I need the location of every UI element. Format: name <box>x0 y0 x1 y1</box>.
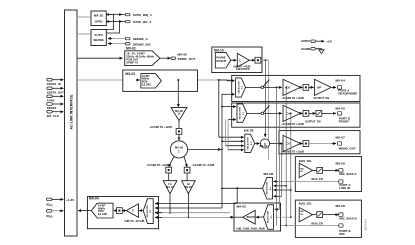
svg-text:OUTPUT_EN: OUTPUT_EN <box>305 121 321 124</box>
svg-text:BIAS_SEL: BIAS_SEL <box>299 159 312 163</box>
wire center taps vertical v5 <box>218 80 220 137</box>
pin ID0 <box>47 210 64 219</box>
svg-text:AC-LINK INTERFACE: AC-LINK INTERFACE <box>69 94 73 130</box>
wire HP amp to pin <box>331 86 336 88</box>
svg-text:SDATA_IN: SDATA_IN <box>47 82 61 86</box>
wire switch to amp row1 <box>264 86 282 88</box>
enable switch row2 <box>305 111 322 124</box>
DAC main bus wire <box>77 79 233 81</box>
wire record in2 <box>155 207 222 209</box>
svg-text:MX-09: MX-09 <box>336 162 346 166</box>
node chain mono <box>221 140 223 142</box>
bias switch row4 <box>312 168 323 182</box>
wire summer to right mute <box>184 156 187 167</box>
row3 mono box <box>279 131 360 154</box>
svg-text:SDATA_OUT: SDATA_OUT <box>47 91 64 95</box>
bias amp row4 <box>299 159 313 178</box>
pin GPIO_I2C_0 <box>125 20 151 24</box>
svg-text:CA: CA <box>187 183 191 186</box>
wire 0B in3 <box>274 189 291 191</box>
wire sel to mono summer <box>255 143 260 145</box>
svg-text:06675-045: 06675-045 <box>365 219 368 231</box>
node chain row2 <box>221 106 223 108</box>
wire selector to switch row1 <box>246 86 261 88</box>
svg-text:MX-03: MX-03 <box>125 72 135 76</box>
amp CA row1 <box>281 79 304 100</box>
wire phone to mono summer <box>264 60 266 134</box>
svg-text:HP: HP <box>317 86 321 90</box>
svg-text:HEADPHONE: HEADPHONE <box>338 92 357 96</box>
wire record in1 <box>155 203 237 205</box>
svg-text:MX-: MX- <box>300 211 304 213</box>
svg-text:MX-07: MX-07 <box>336 136 346 140</box>
pin BIT_CLK <box>47 110 64 118</box>
svg-text:SYNC: SYNC <box>47 99 55 103</box>
wire port b mic <box>273 225 339 227</box>
svg-text:C: C <box>239 58 241 62</box>
mute row3 <box>303 141 309 147</box>
wire SENSE_A <box>108 38 125 40</box>
wire mute to adc <box>114 210 117 212</box>
svg-text:SPDIF_OUT: SPDIF_OUT <box>178 57 196 61</box>
pin PORT B MIC <box>339 224 351 236</box>
svg-text:MX-08: MX-08 <box>336 204 346 208</box>
svg-text:AUTO: AUTO <box>94 33 103 37</box>
pin SDATA_OUT <box>47 87 64 95</box>
wire SENSE_B <box>108 43 125 45</box>
svg-text:Σ: Σ <box>178 149 180 153</box>
svg-text:SELECTOR: SELECTOR <box>240 107 242 120</box>
wire into selector row2 a <box>222 106 236 108</box>
wire v8 <box>227 120 229 150</box>
wire switch to amp row2 <box>264 112 282 114</box>
svg-text:BIAS_SEL: BIAS_SEL <box>299 201 312 205</box>
pin GPIO_IRQ_1 <box>125 13 152 17</box>
row2 line out box <box>232 103 360 127</box>
record mute <box>117 208 123 214</box>
svg-text:SELECTOR: SELECTOR <box>248 137 250 150</box>
wire volume to mute <box>178 121 180 129</box>
mute MR <box>184 167 190 173</box>
bias switch row5 <box>312 212 323 226</box>
selector row2 <box>237 104 247 122</box>
MIC boost box MX-0C <box>234 203 281 231</box>
svg-text:MIC: MIC <box>339 232 345 236</box>
wire mono sel in1 <box>219 136 244 138</box>
row5 mic bias D box <box>295 200 361 237</box>
wire amp R down <box>187 194 189 218</box>
wire mono sel in2 <box>222 140 244 142</box>
node mic tee 1 <box>276 225 278 227</box>
svg-text:1dB STEPS: 1dB STEPS <box>236 68 250 71</box>
pin AVDD <box>301 39 333 43</box>
wire alt into selector row1 <box>222 93 235 95</box>
wire switch to pin row5 <box>323 214 339 216</box>
pin SYNC <box>47 95 64 103</box>
svg-text:+1.3V: +1.3V <box>66 198 75 202</box>
svg-text:LINE IN: LINE IN <box>339 186 350 190</box>
node mic tee 2 <box>285 225 287 227</box>
pin SENSE_A <box>125 37 148 41</box>
pin MONO_OUT <box>336 136 356 151</box>
svg-text:MX-: MX- <box>300 168 304 170</box>
wire amp to mute row2 <box>300 112 302 114</box>
svg-text:−34.5dB TO +12dB: −34.5dB TO +12dB <box>149 126 172 129</box>
wire ML to amp L <box>168 173 170 180</box>
wire interface to SPDIF TX <box>77 57 123 59</box>
wire amp to mute row1 <box>300 86 302 88</box>
node chain 0b <box>221 187 223 189</box>
AUTO SENSE block <box>91 30 106 46</box>
wire chain to record <box>221 188 223 208</box>
wire boost out to record line <box>230 216 243 218</box>
svg-text:+5V: +5V <box>326 39 333 43</box>
pin SPDIF_OUT <box>171 52 195 60</box>
wire DAC down to volume amp <box>177 80 179 107</box>
svg-text:MX-0F: MX-0F <box>260 145 268 148</box>
svg-text:MIC_BIAS-C: MIC_BIAS-C <box>339 172 357 176</box>
node 0B branch <box>236 187 238 189</box>
wire 0C in3 <box>275 216 291 218</box>
pin AGND with ground <box>301 47 324 54</box>
wire GPIO bus 0 <box>106 21 125 23</box>
row4 mic bias C box <box>295 157 361 192</box>
svg-text:−34.5dB TO +12dB: −34.5dB TO +12dB <box>146 164 169 167</box>
svg-text:CA: CA <box>168 183 172 186</box>
svg-text:0dB, 10dB, 20dB, 30dB: 0dB, 10dB, 20dB, 30dB <box>237 227 265 230</box>
wire interface to AUTO SENSE <box>77 33 91 35</box>
wire bus into selector row1 <box>219 79 235 82</box>
svg-text:MIC_BIAS-D: MIC_BIAS-D <box>339 217 356 221</box>
svg-text:SENSE_A: SENSE_A <box>133 37 149 41</box>
wire mute to pin row3 <box>309 143 336 145</box>
wire mono sel in4 <box>228 149 244 151</box>
ADC block <box>91 203 113 218</box>
amp CA row2 <box>281 105 304 126</box>
wire mute to HP amp row1 <box>309 86 314 88</box>
bias amp row5 <box>299 201 313 221</box>
wire mono sel in3 <box>226 145 244 147</box>
volume amp MX-1B <box>171 107 187 120</box>
wire branch down to record sel <box>236 188 238 203</box>
pin PORT A HEADPHONE <box>336 79 358 96</box>
wire GPIO bus 1 <box>106 14 125 16</box>
wire v7 <box>225 120 227 146</box>
svg-text:FRONT: FRONT <box>339 120 349 124</box>
svg-text:GPIO: GPIO <box>95 20 103 24</box>
DAC block MX-03 <box>123 70 198 91</box>
pin PORT D FRONT <box>336 107 350 124</box>
svg-text:SENSE: SENSE <box>93 38 103 42</box>
svg-text:RESET: RESET <box>47 106 57 110</box>
mute row2 <box>303 111 309 117</box>
wire interface to GPIO <box>77 16 91 18</box>
wire summer to left mute <box>169 156 174 167</box>
wire phone to buses <box>261 59 269 61</box>
wire record in3 <box>155 212 230 214</box>
wire summer to mono bus <box>188 148 221 150</box>
pin SDATA_IN <box>47 78 64 86</box>
AC-link interface block U1 <box>65 10 78 236</box>
pin ID1 <box>47 198 76 207</box>
phone pickup block MX-10 <box>212 47 262 73</box>
svg-text:MX-04: MX-04 <box>336 79 346 83</box>
svg-text:OUTPUT_EN: OUTPUT_EN <box>314 97 330 100</box>
wire 0B in4 <box>274 195 282 197</box>
amp L <box>163 181 177 194</box>
wire MR to amp R <box>186 173 188 180</box>
svg-text:GPIO_IRQ_1: GPIO_IRQ_1 <box>133 13 152 17</box>
wire amp to mute row3 <box>300 143 302 145</box>
wire record in4 <box>155 216 229 218</box>
mono summer <box>260 139 270 148</box>
selector MX-0B <box>263 178 273 199</box>
svg-text:ΣΔ ADC: ΣΔ ADC <box>98 213 108 216</box>
svg-text:CA: CA <box>286 142 290 146</box>
svg-text:1A: 1A <box>177 113 180 116</box>
svg-text:−34.5dB TO +12dB: −34.5dB TO +12dB <box>281 97 304 100</box>
svg-text:−34.5dB TO +12dB: −34.5dB TO +12dB <box>281 123 304 126</box>
mute M1 <box>176 129 182 135</box>
svg-text:MX-1D: MX-1D <box>185 187 193 189</box>
wire sense vertical a <box>275 87 277 225</box>
node chain sum <box>221 149 223 151</box>
svg-text:BIAS_EN: BIAS_EN <box>312 178 323 181</box>
wire amp L down <box>169 194 171 213</box>
wire phone gray drop <box>268 60 270 160</box>
wire sense vertical b <box>278 113 280 209</box>
summer MX-1B <box>170 141 187 158</box>
selector row1 <box>236 78 246 97</box>
wire gpio to sense taps <box>106 14 120 33</box>
svg-text:GPIO_I2C_0: GPIO_I2C_0 <box>133 20 151 24</box>
GPIO block <box>91 11 106 26</box>
wire bias amp to switch row5 <box>313 214 317 216</box>
switch row2 <box>261 106 269 115</box>
ADC record box MX-04 <box>87 197 158 229</box>
wire 0B in1 from line-in <box>274 181 278 183</box>
wire sense vertical d <box>285 87 287 225</box>
pin MIC_BIAS-C <box>336 162 358 177</box>
switch row1 <box>261 80 269 89</box>
svg-text:SELECTOR: SELECTOR <box>267 182 269 195</box>
wire mute to summer <box>178 134 180 140</box>
wire selector to record amp <box>139 210 143 212</box>
svg-text:MX-10: MX-10 <box>214 48 224 52</box>
svg-text:SELECTOR: SELECTOR <box>238 81 240 94</box>
boost amp MX-0C <box>243 210 256 224</box>
svg-text:MX-0B: MX-0B <box>264 172 275 176</box>
wire mute to enable row2 <box>309 112 316 114</box>
amp CA row3 <box>281 135 304 153</box>
svg-text:SELECTOR: SELECTOR <box>268 210 270 223</box>
mute ML <box>166 167 172 173</box>
wire enable to pin row2 <box>322 112 336 114</box>
svg-text:BIAS_EN: BIAS_EN <box>312 222 323 225</box>
wire sense vertical e <box>290 113 292 217</box>
row1 headphone box <box>232 75 360 101</box>
pin RESET <box>47 103 64 111</box>
wire 0C in1 <box>275 208 280 210</box>
svg-text:MONO_OUT: MONO_OUT <box>339 146 356 150</box>
svg-text:MX-02: MX-02 <box>126 47 136 51</box>
mute row1 <box>303 85 309 91</box>
wire summer to amp row3 <box>270 143 282 145</box>
svg-text:SPDIF TX: SPDIF TX <box>126 62 138 65</box>
svg-text:SELECTOR: SELECTOR <box>147 205 149 218</box>
svg-text:BIT_CLK: BIT_CLK <box>47 114 59 118</box>
node DAC bus junction <box>177 79 179 81</box>
node bus junction 2 <box>218 79 220 81</box>
selector MX-0C <box>264 205 274 230</box>
svg-text:PICKUP: PICKUP <box>216 60 226 63</box>
svg-text:MX-1C: MX-1C <box>166 187 174 189</box>
svg-text:MX-06: MX-06 <box>178 52 188 56</box>
pin MIC_BIAS-D <box>336 204 357 220</box>
svg-text:MX-1E: MX-1E <box>94 14 103 18</box>
wire switch to pin row4 <box>323 169 339 171</box>
svg-text:MX-04: MX-04 <box>89 197 99 201</box>
wire 0B out to hp selector <box>222 94 263 188</box>
svg-text:0dB TO −22.5dB: 0dB TO −22.5dB <box>125 220 145 223</box>
amp R <box>182 181 196 194</box>
svg-text:MX-0E: MX-0E <box>244 129 254 133</box>
pin PORT C LINE IN <box>339 180 352 190</box>
wire sense vertical c <box>281 144 283 197</box>
wire 0B in2 <box>274 185 287 187</box>
record PGA <box>125 204 145 223</box>
svg-text:−34.5dB TO +12dB: −34.5dB TO +12dB <box>281 151 304 154</box>
wire selector to switch row2 <box>247 112 261 114</box>
svg-text:MX-05: MX-05 <box>336 107 346 111</box>
svg-text:BOOST: BOOST <box>247 217 256 219</box>
wire into selector row2 b <box>228 119 236 121</box>
svg-text:SENSE_B/C: SENSE_B/C <box>133 43 152 47</box>
wire SPDIF out <box>160 57 171 59</box>
record selector <box>143 199 153 224</box>
svg-text:MX-0C: MX-0C <box>237 205 248 209</box>
wire bias amp to switch row4 <box>313 169 317 171</box>
pin SENSE_B <box>125 42 151 46</box>
svg-text:C: C <box>132 209 134 213</box>
svg-text:AGND: AGND <box>301 47 311 51</box>
wire pga to mute <box>122 210 126 212</box>
SPDIF transmitter MX-02 <box>125 47 160 66</box>
wire port c line in <box>275 181 339 183</box>
svg-text:−34.5dB TO +12dB: −34.5dB TO +12dB <box>192 164 215 167</box>
svg-text:AVDD: AVDD <box>301 39 310 43</box>
node phone tee <box>265 59 267 61</box>
svg-text:CA: CA <box>286 112 290 116</box>
wire adc to interface <box>78 210 91 212</box>
svg-text:ΣΔ DAC: ΣΔ DAC <box>142 83 152 86</box>
HP amp row1 <box>314 79 332 100</box>
wire selector to boost amp <box>256 216 264 218</box>
selector mono <box>245 134 255 152</box>
